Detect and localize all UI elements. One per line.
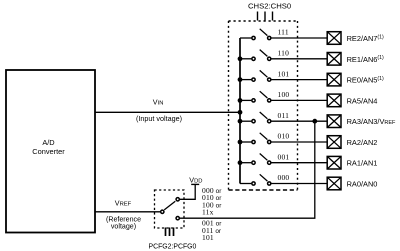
wire VIN	[95, 111, 240, 113]
pin RA3/AN3/VREF	[327, 115, 396, 128]
reference select dashed enclosure	[155, 190, 185, 228]
svg-text:CHS2:CHS0: CHS2:CHS0	[248, 1, 291, 10]
svg-text:101: 101	[202, 233, 214, 242]
pin RE2/AN7	[327, 32, 384, 45]
svg-text:RA2/AN2: RA2/AN2	[347, 138, 378, 147]
svg-text:000: 000	[278, 173, 290, 182]
wire VREF	[95, 211, 160, 213]
label PCFG codes RA3 side	[202, 219, 222, 242]
svg-text:010: 010	[278, 132, 290, 141]
wire VREF tap to reference switch	[180, 121, 315, 218]
switch channel 000	[240, 173, 327, 185]
switch channel 010	[238, 132, 328, 145]
A/D converter block	[6, 70, 95, 233]
analog mux dashed enclosure	[229, 21, 298, 190]
switch channel 111	[240, 28, 327, 40]
switch channel 110	[238, 49, 328, 62]
switch channel 001	[238, 152, 328, 165]
pin RA1/AN1	[327, 156, 377, 169]
svg-text:(Input voltage): (Input voltage)	[136, 114, 182, 123]
switch channel 100	[238, 90, 328, 103]
svg-text:A/D: A/D	[42, 138, 54, 147]
pin RA5/AN4	[327, 94, 377, 107]
pin RE0/AN5	[327, 73, 384, 86]
svg-text:101: 101	[278, 69, 290, 78]
svg-text:111: 111	[278, 28, 289, 37]
svg-text:001: 001	[278, 152, 290, 161]
pin RE1/AN6	[327, 53, 384, 66]
pin RA0/AN0	[327, 177, 377, 190]
switch channel 011	[238, 111, 328, 124]
switch VREF select	[161, 198, 180, 220]
label PCFG codes VDD side	[202, 186, 222, 217]
node VREF tap junction	[312, 119, 317, 124]
svg-text:RA5/AN4: RA5/AN4	[347, 96, 378, 105]
svg-text:011: 011	[278, 111, 290, 120]
pin RA2/AN2	[327, 136, 377, 149]
svg-text:RA1/AN1: RA1/AN1	[347, 159, 378, 168]
svg-text:110: 110	[278, 49, 290, 58]
svg-text:Converter: Converter	[32, 147, 65, 156]
svg-text:11x: 11x	[202, 208, 214, 217]
power VDD	[189, 175, 202, 184]
svg-text:100: 100	[278, 90, 290, 99]
wire mux input bus	[239, 38, 241, 184]
wire PCFG select ticks	[166, 228, 174, 237]
wire VDD feed	[180, 185, 195, 200]
switch channel 101	[238, 69, 328, 82]
svg-text:RA0/AN0: RA0/AN0	[347, 180, 378, 189]
wire CHS select ticks	[258, 12, 273, 21]
node VIN junction on bus	[238, 110, 243, 115]
svg-text:PCFG2:PCFG0: PCFG2:PCFG0	[149, 243, 197, 250]
svg-text:voltage): voltage)	[111, 222, 136, 230]
